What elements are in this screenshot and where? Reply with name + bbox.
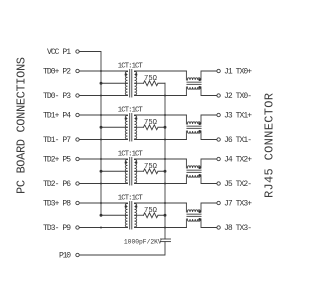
svg-text:VCC P1: VCC P1 (47, 48, 71, 57)
svg-text:J5 TX2-: J5 TX2- (224, 180, 252, 189)
svg-text:1CT:1CT: 1CT:1CT (118, 151, 144, 159)
svg-text:TD0+ P2: TD0+ P2 (43, 68, 71, 77)
svg-text:J3 TX1+: J3 TX1+ (224, 112, 252, 121)
svg-text:TD3- P9: TD3- P9 (43, 224, 71, 233)
svg-text:TD1+ P4: TD1+ P4 (43, 112, 71, 121)
svg-text:75Ω: 75Ω (144, 207, 158, 215)
svg-text:75Ω: 75Ω (144, 119, 158, 127)
svg-text:RJ45 CONNECTOR: RJ45 CONNECTOR (263, 93, 277, 198)
svg-text:J2 TX0-: J2 TX0- (224, 92, 252, 101)
svg-text:TD0- P3: TD0- P3 (43, 92, 71, 101)
svg-text:TD2+ P5: TD2+ P5 (43, 156, 71, 165)
svg-text:P10: P10 (59, 252, 71, 261)
svg-text:J6 TX1-: J6 TX1- (224, 136, 252, 145)
svg-text:PC BOARD CONNECTIONS: PC BOARD CONNECTIONS (15, 57, 29, 194)
svg-text:1000pF/2KV: 1000pF/2KV (124, 239, 162, 246)
svg-text:TD2- P6: TD2- P6 (43, 180, 71, 189)
svg-text:75Ω: 75Ω (144, 75, 158, 83)
svg-text:J4 TX2+: J4 TX2+ (224, 156, 252, 165)
svg-text:TD3+ P8: TD3+ P8 (43, 200, 71, 209)
svg-text:J8 TX3-: J8 TX3- (224, 224, 252, 233)
svg-text:1CT:1CT: 1CT:1CT (118, 195, 144, 203)
svg-text:75Ω: 75Ω (144, 163, 158, 171)
svg-text:J7 TX3+: J7 TX3+ (224, 200, 252, 209)
svg-text:J1 TX0+: J1 TX0+ (224, 68, 252, 77)
svg-text:TD1- P7: TD1- P7 (43, 136, 71, 145)
svg-text:1CT:1CT: 1CT:1CT (118, 107, 144, 115)
svg-text:1CT:1CT: 1CT:1CT (118, 63, 144, 71)
